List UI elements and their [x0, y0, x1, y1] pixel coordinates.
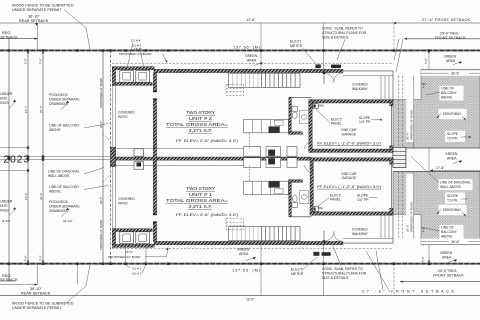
label reg setback bottom-left	[0, 274, 18, 282]
garage unit1	[310, 158, 393, 215]
svg-text:METER: METER	[290, 44, 303, 48]
svg-text:LINE OF BALCONY: LINE OF BALCONY	[49, 124, 80, 128]
svg-text:GREEN: GREEN	[237, 248, 250, 252]
CU pad 1	[120, 232, 134, 244]
svg-text:CONC. SLAB, REFER TO: CONC. SLAB, REFER TO	[322, 27, 363, 31]
svg-text:36'-6": 36'-6"	[451, 72, 460, 76]
svg-text:PROPOSED 24" BAND: PROPOSED 24" BAND	[99, 220, 103, 250]
left wall connector at party zone	[153, 148, 156, 167]
band corridor bottom	[399, 172, 414, 239]
svg-text:ABOVE.: ABOVE.	[49, 189, 62, 193]
svg-text:4'-0": 4'-0"	[421, 83, 425, 88]
elect meters unit1	[313, 252, 330, 256]
dashed ext x394 bottom	[393, 264, 395, 296]
islands unit1	[244, 158, 297, 168]
svg-text:LINE OF DIAGONAL: LINE OF DIAGONAL	[48, 170, 80, 174]
stairs unit2	[226, 73, 300, 95]
svg-text:STRUCTURAL PLANS FOR: STRUCTURAL PLANS FOR	[322, 31, 367, 35]
svg-text:5'-0": 5'-0"	[39, 255, 43, 261]
svg-text:LINE OF DIAGONAL: LINE OF DIAGONAL	[440, 181, 471, 185]
svg-text:WALL ABOVE.: WALL ABOVE.	[48, 174, 70, 178]
driveway hatch bottom	[393, 172, 480, 245]
label line of balcony bottom-left	[49, 185, 108, 193]
label reg front setback top	[435, 31, 466, 39]
svg-text:COVERED: COVERED	[118, 111, 135, 115]
label slope bottom-right	[445, 193, 468, 204]
svg-text:UNIT # 2: UNIT # 2	[189, 116, 213, 121]
svg-text:TOTAL GROSS AREA=: TOTAL GROSS AREA=	[166, 122, 229, 127]
reg setback line bottom-right	[400, 281, 480, 283]
islands unit2	[244, 147, 297, 157]
label wood fence bottom	[12, 265, 90, 310]
label reg setback top-left	[0, 31, 18, 39]
svg-text:BALCONY: BALCONY	[441, 230, 458, 234]
svg-text:GARAGE: GARAGE	[342, 176, 357, 180]
label pooldeck bottom	[49, 200, 80, 217]
entry door unit1	[323, 231, 343, 243]
label elect meter top	[290, 40, 316, 64]
svg-text:SEPARATE: SEPARATE	[0, 204, 8, 208]
label cu2	[132, 244, 146, 276]
svg-text:16'-6": 16'-6"	[125, 250, 133, 254]
dim strip 36-6 top	[421, 70, 480, 75]
svg-text:UNDER SEPARATE PERMIT: UNDER SEPARATE PERMIT	[12, 8, 62, 12]
svg-text:SIZE & DETAILS: SIZE & DETAILS	[322, 276, 349, 280]
svg-text:FRONT SETBACK: FRONT SETBACK	[435, 36, 466, 40]
svg-text:FF. ELEV= ( -1'-2"-0" (NAVD= 3: FF. ELEV= ( -1'-2"-0" (NAVD= 3.0')	[317, 185, 381, 189]
label slope top-right	[445, 131, 471, 142]
svg-text:GREEN: GREEN	[444, 54, 457, 58]
svg-text:WALL ABOVE.: WALL ABOVE.	[440, 185, 462, 189]
svg-text:PANEL: PANEL	[331, 122, 342, 126]
svg-text:25'-0" REG.: 25'-0" REG.	[440, 31, 459, 35]
label conc slab bottom	[322, 246, 367, 280]
svg-text:TWO STORY: TWO STORY	[186, 186, 215, 191]
svg-text:27'-6" FRONT SETBACK: 27'-6" FRONT SETBACK	[362, 290, 455, 294]
svg-text:SETBACK: SETBACK	[0, 35, 18, 39]
svg-text:STRUCTURAL PLANS FOR: STRUCTURAL PLANS FOR	[322, 271, 367, 275]
unit2 left wall	[153, 73, 157, 148]
svg-text:ABOVE.: ABOVE.	[49, 128, 62, 132]
svg-text:16'-6": 16'-6"	[134, 47, 142, 51]
label driveway bottom-right	[437, 205, 467, 217]
label line-of-balcony top-right	[426, 86, 464, 101]
sheet border line bottom	[0, 295, 480, 297]
svg-text:BALCONY: BALCONY	[441, 91, 458, 95]
svg-text:12'-6": 12'-6"	[246, 297, 255, 301]
svg-text:REAR SETBACK: REAR SETBACK	[19, 19, 49, 23]
label rear setback bottom	[21, 287, 51, 295]
label driveway top-right	[437, 109, 467, 121]
kitchen unit1	[244, 181, 289, 194]
svg-text:AREA: AREA	[447, 157, 457, 161]
svg-text:CU # 1: CU # 1	[132, 267, 142, 271]
label band top	[119, 47, 167, 63]
lot-split lines left	[0, 148, 112, 171]
svg-text:5'-0": 5'-0"	[39, 58, 43, 64]
svg-text:ABOVE: ABOVE	[441, 95, 453, 99]
svg-text:PROPOSED 24" BAND: PROPOSED 24" BAND	[410, 202, 414, 232]
label pooldeck top	[49, 93, 80, 110]
reg setback line bottom-left	[0, 280, 16, 282]
svg-text:3,271 S.F.: 3,271 S.F.	[189, 128, 213, 133]
svg-text:PROPOSED 24" BAND: PROPOSED 24" BAND	[99, 78, 103, 108]
svg-text:GREEN: GREEN	[440, 251, 453, 255]
svg-text:LINE OF BALCONY: LINE OF BALCONY	[49, 185, 80, 189]
vertical tick x37.5 bottom	[37, 264, 39, 285]
svg-text:FF. ELEV= 0'-6" (NAVD= 4.0'): FF. ELEV= 0'-6" (NAVD= 4.0')	[176, 139, 238, 143]
vertical tick x37.5 top	[37, 23, 39, 50]
svg-text:AREA: AREA	[442, 255, 452, 259]
label green area bottom-right	[440, 251, 457, 263]
svg-text:17'-6": 17'-6"	[436, 166, 445, 170]
label cu4	[127, 39, 141, 71]
door hall-garage unit1	[305, 165, 313, 173]
svg-text:TWO STORY: TWO STORY	[186, 110, 215, 115]
rotated dims left top	[24, 78, 103, 128]
svg-text:PROPOSED 24" BAND: PROPOSED 24" BAND	[119, 52, 152, 56]
label green area top-right	[444, 54, 462, 64]
stairs unit1	[226, 219, 300, 241]
4-0 rotated dims in hatch	[421, 83, 427, 232]
dashed ext x394 top	[393, 23, 395, 50]
svg-text:22'-7": 22'-7"	[39, 105, 43, 113]
svg-text:ELECT.: ELECT.	[290, 40, 302, 44]
label covered walkway bottom	[352, 228, 369, 236]
svg-text:CU # 2: CU # 2	[132, 271, 142, 275]
label covered patio top	[118, 111, 135, 119]
svg-text:1/4" PP.: 1/4" PP.	[357, 198, 369, 202]
svg-text:FF. ELEV= ( -1'-2"-0" (NAVD= 3: FF. ELEV= ( -1'-2"-0" (NAVD= 3.0')	[317, 142, 381, 146]
svg-text:ONE CAR: ONE CAR	[341, 128, 357, 132]
vertical dim line x43	[42, 50, 44, 264]
svg-text:12'-6": 12'-6"	[247, 18, 256, 22]
proposed band dashed bottom	[112, 248, 393, 250]
svg-text:REAR SETBACK: REAR SETBACK	[21, 291, 51, 295]
svg-text:5'-0": 5'-0"	[24, 255, 28, 261]
band corridor top	[399, 76, 414, 148]
label wood fence top	[12, 4, 90, 50]
rear setback dim line bottom	[0, 284, 38, 286]
svg-text:36'-10": 36'-10"	[28, 15, 40, 19]
svg-text:FF. ELEV= 0'-6" (NAVD= 4.0'): FF. ELEV= 0'-6" (NAVD= 4.0')	[176, 213, 238, 217]
svg-text:31'-10": 31'-10"	[63, 219, 73, 223]
svg-text:PATIO: PATIO	[118, 201, 128, 205]
label green area bottom-center	[237, 248, 256, 261]
driveway hatch top	[393, 69, 480, 148]
reg setback line top-left	[0, 38, 38, 40]
svg-text:UNDER SEPARATE PERMIT: UNDER SEPARATE PERMIT	[12, 306, 62, 310]
unit1 title	[166, 186, 238, 217]
label line of diagonal bottom-left	[48, 168, 104, 179]
dim strip 36-6 bottom	[421, 239, 480, 244]
rotated dim 5-0 marks bottom	[24, 255, 430, 263]
vertical dim line x9	[8, 39, 10, 281]
label line-of-balcony bottom-right	[426, 225, 464, 240]
green band mid-right	[393, 148, 480, 172]
svg-text:POOLDECK: POOLDECK	[49, 200, 69, 204]
svg-text:UNIT # 1: UNIT # 1	[189, 192, 213, 197]
svg-text:POOL UNDER: POOL UNDER	[0, 92, 13, 96]
CU pad 3	[136, 71, 150, 83]
bath unit2	[289, 97, 312, 134]
patio party post	[110, 147, 115, 167]
svg-text:WOOD FENCE TO BE SUBMITTED: WOOD FENCE TO BE SUBMITTED	[12, 4, 74, 8]
svg-text:ABOVE: ABOVE	[441, 234, 453, 238]
svg-text:16'-2": 16'-2"	[24, 192, 28, 200]
proposed band dashed top	[112, 63, 393, 65]
svg-text:22'-2": 22'-2"	[39, 192, 43, 200]
svg-text:SLOPE: SLOPE	[447, 132, 459, 136]
svg-text:DRIVEWAY: DRIVEWAY	[443, 208, 462, 212]
svg-text:PROPOSED 24" BAND: PROPOSED 24" BAND	[108, 255, 141, 259]
panel box unit2	[313, 104, 319, 109]
label pool under separate top	[0, 92, 16, 108]
rotated dims left bottom	[24, 192, 103, 250]
svg-text:20'-6": 20'-6"	[99, 121, 103, 128]
fence junction knots	[8, 49, 430, 265]
svg-text:DRAWINGS: DRAWINGS	[49, 102, 68, 106]
svg-text:ELECT.: ELECT.	[291, 267, 303, 271]
svg-text:AREA: AREA	[446, 59, 456, 63]
dashed wall-above interior lines	[103, 133, 250, 182]
svg-text:CONC. SLAB, REFER TO: CONC. SLAB, REFER TO	[322, 267, 363, 271]
garage unit2 texts	[316, 103, 382, 145]
leader slants bottom-right	[366, 251, 390, 292]
dims 9-10 31-10	[3, 219, 73, 223]
svg-text:GREEN: GREEN	[445, 152, 458, 156]
laundry boxes	[134, 149, 144, 169]
vertical ext line x261 top	[260, 23, 262, 70]
svg-text:3,271 S.F.: 3,271 S.F.	[189, 204, 213, 209]
reg setback line top-right	[404, 38, 480, 40]
svg-text:DRAWINGS: DRAWINGS	[49, 209, 68, 213]
vertical dim x429	[428, 50, 430, 264]
svg-text:FRONT SETBACK: FRONT SETBACK	[433, 274, 464, 278]
svg-text:137.65' (M): 137.65' (M)	[232, 269, 261, 273]
label line-of-diagonal bottom-right	[411, 157, 473, 191]
svg-text:9'-10": 9'-10"	[3, 219, 11, 223]
svg-text:TOTAL GROSS AREA=: TOTAL GROSS AREA=	[166, 198, 229, 203]
unit1 bottom exterior wall	[154, 241, 343, 244]
unit1 left wall	[153, 166, 157, 241]
patio enclosure top	[112, 67, 154, 86]
label reg front setback bottom	[433, 269, 464, 278]
svg-text:SLOPE: SLOPE	[357, 193, 369, 197]
patio enclosure bottom	[112, 228, 154, 247]
walkway edge top	[343, 71, 393, 100]
svg-text:5'-0": 5'-0"	[24, 58, 28, 64]
svg-text:COVERED: COVERED	[118, 197, 135, 201]
vertical ext line x261 bottom	[260, 245, 262, 296]
vertical x77.5 bottom	[77, 264, 79, 285]
patio edge lines top	[113, 86, 116, 152]
property fence line top	[0, 50, 480, 52]
svg-text:36'-6": 36'-6"	[451, 240, 460, 244]
garage unit2	[309, 100, 393, 153]
svg-text:PANEL: PANEL	[330, 198, 341, 202]
label conc slab top	[322, 27, 367, 60]
bath unit1	[289, 180, 312, 217]
svg-text:SLOPE: SLOPE	[359, 116, 371, 120]
label covered patio bottom	[118, 197, 135, 205]
svg-text:UNDER SEPARATE: UNDER SEPARATE	[49, 204, 80, 208]
svg-text:25'-0" REG.: 25'-0" REG.	[438, 269, 457, 273]
svg-text:METER: METER	[291, 272, 304, 276]
sheet border line top	[0, 22, 480, 24]
svg-text:GREEN: GREEN	[245, 54, 258, 58]
svg-text:1/4" PP.: 1/4" PP.	[359, 120, 371, 124]
property fence line bottom	[0, 263, 480, 265]
label cu3	[132, 43, 144, 70]
svg-text:SETBACK: SETBACK	[0, 278, 18, 282]
svg-text:POOL UNDER: POOL UNDER	[0, 200, 13, 204]
label pool under separate bottom	[0, 200, 16, 216]
svg-text:ONE CAR: ONE CAR	[341, 172, 357, 176]
svg-text:WALKWAY: WALKWAY	[352, 87, 369, 91]
svg-text:PROPOSED 24" BAND: PROPOSED 24" BAND	[410, 110, 414, 140]
mid line junction knots	[8, 147, 44, 172]
label covered walkway top	[352, 83, 369, 91]
leader slants top-right	[394, 39, 403, 72]
garage unit1 texts	[315, 172, 381, 210]
svg-text:CU # 4: CU # 4	[131, 39, 141, 43]
svg-text:AREA: AREA	[239, 252, 249, 256]
svg-text:TO PR.: TO PR.	[447, 198, 458, 202]
label band bottom	[108, 248, 169, 260]
unit2 top exterior wall	[154, 69, 343, 72]
label cu1	[126, 244, 142, 271]
vertical dim line x28	[27, 50, 29, 264]
panel box unit1	[313, 207, 319, 212]
door hall-garage unit2	[305, 141, 313, 149]
CU pad 4	[120, 71, 134, 83]
rotated dim 5-0 marks top	[24, 50, 430, 64]
svg-text:TO PR.: TO PR.	[447, 137, 458, 141]
svg-text:PATIO: PATIO	[118, 115, 128, 119]
svg-text:DRAWINGS: DRAWINGS	[0, 101, 9, 105]
label green area top-center	[245, 54, 263, 66]
svg-text:SLOPE: SLOPE	[447, 194, 459, 198]
svg-text:LINE OF: LINE OF	[441, 226, 454, 230]
vertical ext line x323.5 bottom	[323, 245, 325, 296]
label line of balcony top-left	[49, 124, 108, 133]
kitchen unit2	[244, 119, 289, 132]
svg-text:16'-7": 16'-7"	[24, 105, 28, 113]
svg-text:UNDER SEPARATE: UNDER SEPARATE	[49, 97, 80, 101]
walkway edge bottom	[343, 215, 393, 244]
svg-text:5'-0": 5'-0"	[421, 256, 425, 262]
elect meters unit2	[315, 64, 341, 68]
svg-text:137.66' (M): 137.66' (M)	[233, 45, 261, 49]
unit2 title	[166, 110, 238, 143]
svg-text:DRAWINGS: DRAWINGS	[0, 208, 9, 212]
svg-text:SIZE & DETAILS: SIZE & DETAILS	[322, 35, 349, 39]
vertical ext line x323.5 top	[323, 23, 325, 70]
svg-text:36'-10": 36'-10"	[30, 287, 42, 291]
CU pad 2	[136, 232, 150, 244]
svg-text:LINE OF: LINE OF	[441, 87, 454, 91]
svg-text:SEPARATE: SEPARATE	[0, 96, 8, 100]
svg-text:GARAGE: GARAGE	[342, 133, 357, 137]
svg-text:4'-0": 4'-0"	[421, 227, 425, 232]
vertical band line x103	[102, 50, 104, 264]
patio edge lines bottom	[113, 162, 116, 228]
svg-text:5'-0": 5'-0"	[424, 58, 428, 64]
label elect meter bottom	[291, 257, 317, 276]
svg-text:20'-6": 20'-6"	[99, 197, 103, 204]
party wall	[116, 149, 311, 166]
svg-text:DRIVEWAY: DRIVEWAY	[443, 112, 462, 116]
svg-text:WALKWAY: WALKWAY	[352, 232, 369, 236]
svg-text:27'-6" FRONT SETBACK: 27'-6" FRONT SETBACK	[422, 18, 471, 22]
label rear setback top	[19, 15, 49, 26]
entry door unit2	[323, 72, 343, 84]
steps to driveway mid	[393, 147, 406, 167]
svg-text:POOLDECK: POOLDECK	[49, 93, 69, 97]
balcony dashed line x110.5	[110, 50, 112, 264]
svg-text:AREA: AREA	[247, 58, 257, 62]
